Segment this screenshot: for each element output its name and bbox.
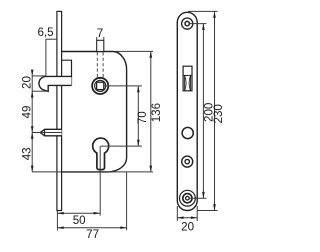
deadbolt bbox=[40, 129, 61, 136]
svg-text:43: 43 bbox=[20, 147, 33, 160]
arrow up at 91.2 bbox=[31, 91, 34, 97]
deadbolt centerline bbox=[32, 132, 61, 134]
svg-text:49: 49 bbox=[20, 106, 33, 119]
svg-text:50: 50 bbox=[73, 214, 86, 227]
plain hole bbox=[182, 127, 193, 138]
euro cylinder hole bbox=[93, 138, 109, 170]
dim 20 (plate width) bbox=[176, 206, 178, 221]
svg-text:70: 70 bbox=[136, 111, 149, 124]
follower (spindle hub) bbox=[92, 78, 108, 94]
dim 70 bbox=[104, 85, 142, 87]
arrow down at 132.5 bbox=[31, 126, 34, 132]
svg-text:6,5: 6,5 bbox=[37, 26, 53, 39]
ext faceplate bottom bbox=[56, 211, 58, 231]
ext cylinder axis bbox=[99, 146, 101, 216]
dashed hole lines under tab bbox=[96, 52, 98, 77]
svg-text:77: 77 bbox=[86, 228, 99, 241]
latch bolt bbox=[39, 76, 72, 91]
top fixing tab bbox=[97, 40, 104, 51]
arrow up at 132.5 bbox=[31, 133, 34, 139]
ext body bottom left bbox=[32, 171, 61, 173]
ext latch top bbox=[32, 75, 46, 77]
svg-text:20: 20 bbox=[20, 76, 33, 89]
dim 136 bbox=[116, 50, 153, 52]
svg-text:136: 136 bbox=[150, 103, 163, 122]
faceplate front view (right) bbox=[177, 12, 197, 210]
dim 200 bbox=[190, 23, 207, 25]
latch housing box bbox=[62, 60, 72, 85]
arrow down at 75.9 bbox=[31, 70, 34, 76]
ext body right bbox=[126, 172, 128, 230]
bottom countersunk screw hole bbox=[180, 190, 196, 206]
lock body outline bbox=[62, 52, 127, 172]
middle screw hole bbox=[182, 156, 193, 167]
latch opening bbox=[183, 66, 192, 91]
dim 6,5 bbox=[46, 38, 57, 40]
dim 7 bbox=[96, 37, 98, 40]
arrow down at 171.9 bbox=[31, 166, 34, 172]
dim 50 bbox=[57, 212, 100, 214]
left dimension chain line bbox=[31, 71, 33, 172]
svg-text:230: 230 bbox=[212, 104, 225, 123]
dim 77 bbox=[57, 227, 126, 229]
dim 230 bbox=[188, 10, 218, 12]
faceplate side view (left) bbox=[57, 11, 62, 210]
ext latch bottom bbox=[32, 90, 47, 92]
top screw hole bbox=[182, 18, 193, 29]
svg-text:7: 7 bbox=[97, 27, 103, 40]
svg-text:20: 20 bbox=[181, 221, 194, 234]
